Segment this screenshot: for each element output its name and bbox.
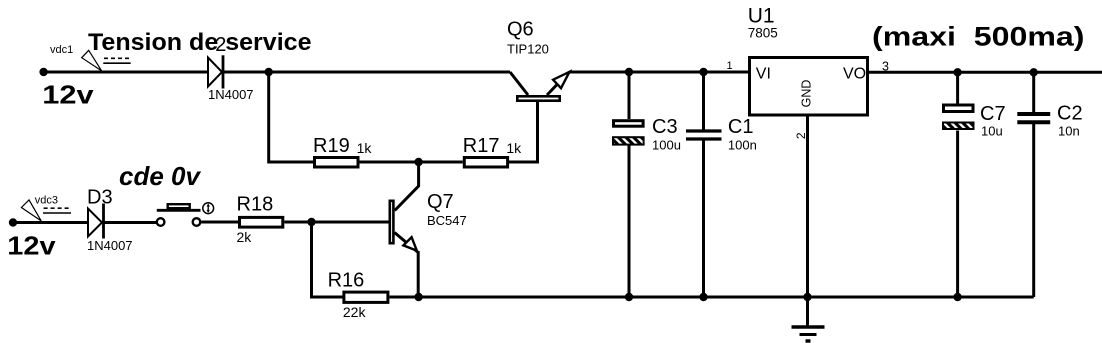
resistor R16: [344, 292, 388, 302]
wire R18 to Q7 base: [284, 221, 388, 224]
svg-text:R18: R18: [237, 194, 274, 216]
node junction after D2: [265, 68, 273, 76]
svg-text:(maxi 500ma): (maxi 500ma): [872, 22, 1085, 52]
diode D3 1N4007: [88, 204, 104, 239]
svg-text:Tension de service: Tension de service: [88, 29, 312, 56]
svg-text:BC547: BC547: [427, 213, 467, 228]
svg-text:12v: 12v: [42, 80, 94, 110]
capacitor C7 10u electrolytic: [943, 72, 974, 297]
wire Q7 emitter down to bottom rail: [417, 251, 420, 297]
svg-text:100n: 100n: [728, 138, 757, 153]
diode D2 1N4007: [208, 55, 223, 88]
svg-text:R16: R16: [328, 270, 365, 292]
wire R19 to R17: [360, 161, 463, 164]
node C2 top: [1030, 68, 1038, 76]
svg-text:12v: 12v: [7, 231, 56, 261]
svg-text:vdc1: vdc1: [50, 44, 73, 56]
capacitor C1 100n: [686, 72, 722, 297]
node C7 top: [953, 68, 961, 76]
resistor R19: [315, 158, 359, 168]
transistor Q6 TIP120: [510, 72, 570, 101]
svg-text:Q7: Q7: [427, 191, 454, 213]
svg-text:C2: C2: [1057, 103, 1083, 125]
svg-text:1: 1: [727, 60, 733, 72]
node C7 bottom: [953, 293, 961, 301]
svg-text:10u: 10u: [981, 124, 1003, 139]
probe flag vdc1: [82, 50, 131, 70]
node R19/R17 junction: [414, 158, 422, 166]
wire junction down to Q7 collector: [395, 162, 419, 211]
node ground junction: [803, 293, 811, 301]
node emitter/R16 junction on ground rail: [414, 293, 422, 301]
capacitor C3 100u electrolytic: [613, 72, 644, 297]
capacitor C2 10n: [1017, 72, 1050, 297]
wire bottom input to D3: [13, 221, 88, 224]
svg-text:7805: 7805: [748, 25, 778, 40]
svg-text:R17: R17: [463, 135, 500, 157]
wire top rail from input node to diode D2: [44, 71, 208, 74]
svg-text:1N4007: 1N4007: [208, 87, 254, 102]
resistor R17: [464, 158, 507, 168]
node C3 bottom: [625, 293, 633, 301]
wire top rail diode to Q6 collector: [223, 71, 510, 74]
svg-text:2: 2: [794, 132, 808, 139]
svg-text:C3: C3: [652, 116, 678, 138]
svg-text:D3: D3: [87, 187, 113, 209]
svg-text:GND: GND: [800, 80, 814, 108]
wire bottom ground rail: [419, 296, 1034, 299]
svg-text:U1: U1: [748, 4, 775, 27]
wire U1 GND pin down to rail: [806, 117, 809, 298]
wire D3 to push button: [104, 221, 157, 224]
svg-text:1N4007: 1N4007: [87, 238, 133, 253]
wire Q6 base lead down to R17: [509, 102, 538, 162]
probe flag vdc3: [21, 200, 71, 221]
svg-text:R19: R19: [313, 135, 350, 157]
svg-text:1k: 1k: [357, 140, 373, 156]
svg-text:C1: C1: [728, 116, 754, 138]
svg-text:VI: VI: [756, 65, 771, 82]
wire junction after D2 down to R19: [269, 72, 313, 162]
svg-text:1k: 1k: [506, 140, 522, 156]
resistor R18: [240, 217, 283, 227]
transistor Q7 BC547: [390, 201, 418, 253]
svg-text:cde 0v: cde 0v: [119, 161, 201, 191]
node C1 bottom: [699, 293, 707, 301]
wire R16 to emitter junction: [390, 296, 419, 299]
wire top rail Q6 emitter to U1 pin1: [569, 71, 748, 74]
node C3 top: [625, 68, 633, 76]
svg-text:22k: 22k: [343, 304, 367, 320]
node C1 top: [699, 68, 707, 76]
svg-text:10n: 10n: [1058, 124, 1080, 139]
wire junction down to R16: [312, 222, 343, 297]
push button SW1: [157, 203, 214, 226]
node bottom input 12v: [9, 218, 17, 226]
svg-text:vdc3: vdc3: [35, 194, 58, 206]
svg-text:C7: C7: [980, 103, 1006, 125]
regulator U1 7805 box: [750, 58, 868, 116]
node left input 12v top: [39, 68, 47, 76]
ground symbol: [792, 297, 825, 341]
svg-text:TIP120: TIP120: [507, 42, 549, 57]
svg-text:100u: 100u: [652, 138, 681, 153]
wire push button to R18: [201, 221, 238, 224]
svg-text:Q6: Q6: [507, 19, 534, 41]
svg-text:2k: 2k: [237, 229, 253, 245]
node base/R16 junction: [307, 218, 315, 226]
svg-text:VO: VO: [843, 65, 866, 82]
wire top rail U1 output to right edge: [869, 71, 1102, 74]
